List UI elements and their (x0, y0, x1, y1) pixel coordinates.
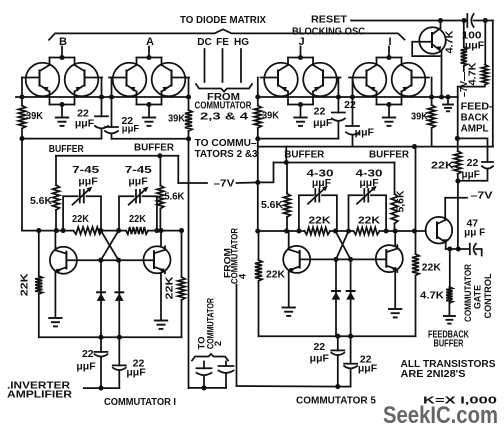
svg-text:39K: 39K (262, 110, 279, 122)
svg-text:μμF: μμF (312, 177, 332, 189)
wire C1 frame top (56, 155, 178, 157)
label 4.7K (R3) (420, 290, 444, 302)
wire to commutator 2 run (189, 387, 227, 389)
junction (36, 228, 41, 233)
label -7V rail (214, 178, 235, 190)
junction (384, 228, 389, 233)
label uuF (47) (464, 228, 485, 239)
junction (333, 257, 338, 262)
wire -7V rail right (237, 181, 258, 184)
note are 2n128s (401, 368, 466, 380)
diode CR4 symbol (346, 291, 355, 300)
wire bracket to-diode-matrix (49, 29, 405, 40)
resistor 5.6K (C5 right) (391, 163, 398, 232)
junction (98, 228, 103, 233)
label AMPL (461, 123, 490, 135)
label 2 3 and 4 (200, 110, 248, 122)
node HG (234, 37, 249, 48)
capacitor 22uuF (C5 out 2) (344, 336, 357, 386)
label BUFFER (I) (369, 149, 409, 161)
label FEED- (461, 101, 494, 113)
label 22 (A cap) (121, 115, 133, 127)
svg-text:μμF: μμF (313, 117, 333, 129)
wire feedback ampl vertical (457, 97, 459, 151)
svg-text:COMMUTATOR I: COMMUTATOR I (104, 396, 176, 408)
resistor 39K (J) (254, 97, 261, 139)
wire C1 cross b (101, 231, 119, 261)
svg-text:22K: 22K (163, 276, 175, 299)
ground buffer B (56, 118, 68, 126)
svg-text:COMMUTATOR 5: COMMUTATOR 5 (296, 395, 376, 407)
svg-text:AMPLIFIER: AMPLIFIER (7, 389, 72, 401)
wire Q7 base (395, 230, 426, 232)
svg-text:22K: 22K (422, 262, 441, 274)
wire I cap to feedback line (352, 135, 354, 146)
wire A lower bus (112, 138, 189, 140)
label uuF (A cap) (122, 124, 140, 135)
label COMMUTATOR vertical gate (463, 264, 474, 322)
resistor 39K (B) (18, 97, 25, 139)
svg-text:2,3 & 4: 2,3 & 4 (200, 110, 248, 122)
label uuF (I cap) (355, 127, 375, 139)
junction (335, 384, 340, 389)
resistor 5.6K (C1 left) (53, 156, 60, 231)
label uuF (C1 out 1) (76, 361, 96, 373)
label -7V (gate) (471, 190, 493, 202)
label BUFFER (434, 338, 464, 350)
capacitor 22uuF (A) (105, 127, 118, 133)
capacitor 22uuF (J) (332, 113, 345, 121)
label 22 (C1 out 1) (82, 348, 94, 360)
diode CR1 (100, 260, 102, 337)
label 39K (B) (26, 110, 43, 122)
junction (109, 94, 114, 99)
junction (116, 258, 121, 263)
label 5.6K (C5 left) (261, 199, 283, 211)
resistor 22K (C1 right leg) (178, 231, 185, 338)
label COMMUTATOR 1 (104, 396, 176, 408)
resistor 4.7K (R3) (446, 249, 452, 315)
label 22 (feedback cap) (467, 157, 479, 169)
junction (284, 228, 289, 233)
wire Q2 collector (160, 231, 162, 247)
label 22 (C5 out 1) (313, 341, 325, 353)
wire DC (204, 49, 206, 82)
junction (336, 94, 341, 99)
wire I right bus (431, 78, 433, 98)
transistor Q6 blocking osc (419, 21, 445, 54)
capacitor 22uuF (I) (346, 126, 359, 135)
variable capacitor 7-45 (2) (129, 187, 149, 205)
ground buffer I (383, 118, 395, 126)
svg-text:I: I (388, 36, 391, 48)
wire B cap to lower bus (101, 129, 103, 139)
wire J cap to lower bus (337, 122, 339, 139)
label 22K (C1 cross 1) (72, 214, 90, 225)
wire top rail (463, 20, 467, 22)
wire J signal down (257, 139, 259, 231)
junction (412, 228, 417, 233)
junction (255, 180, 260, 185)
label 22K (C5 left leg) (266, 269, 285, 281)
svg-text:BUFFER: BUFFER (134, 142, 174, 154)
svg-text:4.7K: 4.7K (420, 290, 444, 302)
svg-text:DC: DC (197, 37, 211, 48)
ground buffer A (143, 118, 155, 126)
wire Q7 collector (444, 198, 446, 218)
wire J left bus (257, 78, 259, 98)
node I (388, 36, 391, 48)
label RESET (311, 14, 348, 26)
svg-text:22K: 22K (129, 214, 147, 225)
wire B right bus (101, 78, 103, 117)
wire C5 box3 (299, 195, 337, 231)
wire Q3 collector (288, 231, 290, 246)
wire FE (222, 49, 224, 82)
svg-text:BUFFER: BUFFER (369, 149, 409, 161)
junction (393, 228, 398, 233)
diode CR2 (118, 260, 120, 337)
svg-text:μμF: μμF (462, 170, 480, 181)
junction (483, 18, 488, 23)
resistor 22K (C5 right leg) (412, 147, 419, 337)
label 5.6K (C1 right) (164, 191, 184, 203)
svg-text:22: 22 (313, 341, 325, 353)
label 2 vertical (213, 341, 224, 346)
wire C1 cross a (101, 231, 119, 261)
label FROM (207, 91, 240, 103)
label BUFFER (J) (284, 149, 324, 161)
label BUFFER (B) (49, 143, 84, 155)
svg-text:μμF: μμF (122, 124, 140, 135)
svg-text:4: 4 (238, 273, 249, 279)
wire Q1 emitter (54, 274, 56, 317)
svg-text:7-45: 7-45 (125, 164, 152, 176)
svg-text:μμF: μμF (76, 361, 96, 373)
svg-text:22K: 22K (72, 214, 90, 225)
svg-text:39K: 39K (168, 113, 185, 125)
junction (154, 228, 159, 233)
buffer pair A (109, 47, 189, 118)
wire B left bus (21, 78, 23, 98)
junction (461, 18, 466, 23)
wire Q6 emitter down (441, 52, 443, 98)
label uuF (100) (465, 40, 485, 52)
resistor 39K (I) (428, 97, 435, 147)
label BLOCKING OSC (292, 26, 365, 38)
resistor 5.6K (C5 left) (284, 163, 291, 232)
label 4-30 (3) (307, 168, 334, 180)
svg-text:TATORS 2 &3: TATORS 2 &3 (195, 148, 258, 160)
junction (158, 228, 163, 233)
junction (455, 136, 460, 141)
wire B lower bus (22, 138, 102, 140)
svg-text:22: 22 (344, 99, 356, 111)
label GATE vertical (473, 285, 484, 309)
capacitor (to comm 2 a) (197, 362, 212, 388)
label 7-45 (1) (72, 164, 99, 176)
wire -7V stub (445, 197, 467, 199)
ground R3 (444, 316, 455, 324)
wire Q1 collector (54, 231, 56, 247)
wire A right bus (188, 78, 190, 98)
wire J lower bus (258, 138, 339, 140)
capacitor 22uuF (B) (95, 116, 108, 128)
svg-text:μμF: μμF (465, 40, 485, 52)
wire cap bottom (458, 169, 488, 181)
wire right edge down (492, 21, 494, 147)
label uuF (J cap) (313, 117, 333, 129)
wire C1 base line (67, 259, 153, 261)
diode CR2 symbol (115, 292, 124, 301)
wire Q4 emitter (394, 272, 396, 308)
junction (99, 94, 104, 99)
label FROM vertical (223, 248, 234, 278)
junction (54, 228, 59, 233)
brace from-commutator (196, 84, 252, 92)
junction (333, 228, 338, 233)
junction (348, 257, 353, 262)
junction (19, 136, 24, 141)
wire cap feed line (457, 138, 487, 161)
svg-text:SeekIC.com: SeekIC.com (383, 402, 498, 429)
ground Q3 (283, 308, 295, 316)
capacitor 22uuF (C1 out 2) (113, 337, 126, 388)
junction (335, 334, 340, 339)
label 4 vertical (238, 273, 249, 279)
label COMMUTATOR4 vertical (230, 228, 241, 284)
ground Q1 (49, 318, 61, 326)
label TO COMMU- (195, 137, 257, 149)
svg-text:5,6K: 5,6K (396, 190, 407, 213)
wire C5 base line (300, 258, 385, 260)
capacitor 100uuF (467, 14, 473, 27)
wire C1 box2 (119, 196, 157, 230)
label 47 (466, 218, 478, 230)
junction (455, 178, 460, 183)
label uuF (B cap) (75, 118, 95, 130)
wire C1 bus (22, 230, 182, 232)
junction (61, 228, 66, 233)
watermark SeekIC.com (383, 402, 498, 429)
resistor 22K (feedback) (454, 151, 461, 181)
junction (348, 334, 353, 339)
svg-text:39K: 39K (26, 110, 43, 122)
junction (429, 94, 434, 99)
wire bias bus right section (258, 96, 458, 98)
label 22K (C5 cross 1) (309, 215, 331, 227)
label 22K (C5 cross 2) (358, 215, 380, 227)
svg-text:RESET: RESET (311, 14, 348, 26)
resistor 22K (C5 cross 1) (305, 227, 331, 234)
svg-text:2: 2 (213, 341, 224, 346)
junction (438, 18, 443, 23)
svg-text:BUFFER: BUFFER (434, 338, 464, 350)
label 22 (C1 out 2) (133, 358, 145, 370)
wire B bus down to commutator (21, 139, 23, 231)
buffer pair I (349, 47, 429, 118)
svg-text:39K: 39K (411, 111, 428, 123)
label FEEDBACK (428, 329, 469, 341)
svg-text:CONTROL: CONTROL (483, 273, 494, 318)
svg-text:7-45: 7-45 (72, 164, 99, 176)
transistor Q1 (C1 left) (50, 247, 77, 274)
wire A signal down (188, 139, 190, 388)
diode CR4 (350, 259, 352, 336)
junction (439, 94, 444, 99)
node A (146, 36, 154, 48)
diode CR3 (335, 259, 337, 336)
node FE (216, 37, 229, 48)
svg-text:μμF: μμF (358, 363, 378, 375)
label TATORS 2 and 3 (195, 148, 258, 160)
junction (117, 335, 122, 340)
svg-text:5.6K: 5.6K (164, 191, 184, 203)
label 5.6K (C1 left) (30, 195, 52, 207)
transistor Q3 (C5 left) (283, 246, 310, 273)
wire bias bus left section (16, 96, 189, 98)
wire C1 box1 (63, 196, 101, 230)
capacitor 22uuF (C1 out 1) (95, 337, 108, 388)
label 7-45 (2) (125, 164, 152, 176)
diode CR3 symbol (332, 291, 341, 300)
transistor Q7 feedback buffer (426, 217, 453, 249)
label 22 (I cap) (344, 99, 356, 111)
label 22 (B cap) (77, 108, 89, 120)
svg-text:HG: HG (234, 37, 249, 48)
ground blocking osc (443, 97, 453, 111)
wire feedback to emitter (457, 181, 459, 249)
svg-text:22K: 22K (19, 273, 31, 296)
label uuF (4-30 4) (359, 177, 379, 189)
node B (59, 36, 67, 48)
label INVERTER (7, 380, 70, 392)
label 22K (feedback) (431, 160, 454, 172)
wire I left bus (352, 78, 354, 127)
wire Q6 base loop (412, 42, 441, 56)
capacitor 22uuF (C5 out 1) (331, 336, 344, 386)
label 100 (462, 30, 482, 42)
wire Q4 collector (394, 231, 396, 245)
transistor Q2 (C1 right) (144, 246, 171, 273)
svg-text:5.6K: 5.6K (261, 199, 283, 211)
svg-text:μμF: μμF (78, 176, 98, 188)
wire Q3 emitter (288, 273, 290, 307)
svg-text:μμF: μμF (126, 367, 146, 379)
label 5.6K (C5 right) (396, 190, 407, 213)
label COMMUTATOR vertical (205, 298, 216, 349)
svg-text:J: J (298, 36, 304, 48)
node DC (197, 37, 211, 48)
label 4.7K (R2) (467, 62, 479, 85)
label 22K (C5 right leg) (422, 262, 441, 274)
label BUFFER (A) (134, 142, 174, 154)
buffer pair B (22, 47, 102, 118)
junction (456, 246, 461, 251)
junction (255, 136, 260, 141)
wire C1 bottom bus (39, 336, 182, 338)
label 39K (I) (411, 111, 428, 123)
junction (296, 228, 301, 233)
junction (255, 228, 260, 233)
resistor 22K (C5 cross 2) (354, 227, 380, 234)
label uuF (feedback cap) (462, 170, 480, 181)
junction (201, 385, 206, 390)
junction (19, 94, 24, 99)
svg-text:22K: 22K (431, 160, 454, 172)
svg-text:BUFFER: BUFFER (49, 143, 84, 155)
label CONTROL vertical (483, 273, 494, 318)
svg-text:TO DIODE MATRIX: TO DIODE MATRIX (180, 14, 266, 26)
svg-text:μμF: μμF (128, 176, 148, 188)
wire from commutator 4 (237, 285, 351, 387)
junction (255, 94, 260, 99)
wire C5 frame top (274, 162, 395, 164)
svg-text:–7V: –7V (471, 190, 493, 202)
wire C5 bus (258, 230, 395, 232)
wire -7V rail (178, 156, 207, 183)
buffer pair J (261, 47, 341, 118)
label COMMUTATOR 5 (296, 395, 376, 407)
wire Q2 emitter (160, 273, 162, 319)
junction (350, 94, 355, 99)
wire C5 bottom bus (259, 335, 416, 337)
svg-text:22: 22 (467, 157, 479, 169)
svg-text:22: 22 (82, 348, 94, 360)
svg-text:4.7K: 4.7K (467, 62, 479, 85)
capacitor (to comm 2 b) (219, 362, 234, 388)
wire top rail right (474, 20, 493, 22)
svg-text:–7V: –7V (214, 178, 235, 190)
svg-text:A: A (146, 36, 154, 48)
junction (186, 136, 191, 141)
wire 5.6K3 feed (285, 147, 287, 163)
wire C5 cross b (336, 231, 349, 259)
junction (98, 386, 103, 391)
label uuF (C5 out 2) (358, 363, 378, 375)
resistor 22K (C1 cross 2) (126, 227, 148, 234)
ground Q2 (155, 321, 167, 329)
label COMMUTATOR (195, 99, 252, 111)
label BACK (461, 112, 489, 124)
note all transistors (401, 358, 496, 370)
variable capacitor 7-45 (1) (73, 187, 93, 205)
junction (346, 228, 351, 233)
resistor 39K (A) (185, 97, 192, 139)
svg-text:AMPL: AMPL (461, 123, 490, 135)
label 39K (J) (262, 110, 279, 122)
wire jog to commutator5 frame (258, 163, 274, 183)
svg-text:B: B (59, 36, 67, 48)
svg-text:22: 22 (314, 106, 326, 118)
svg-text:22K: 22K (309, 215, 331, 227)
label 4.7K (R1) (444, 30, 456, 53)
wire HG (240, 49, 242, 82)
svg-text:ARE 2NI28'S: ARE 2NI28'S (401, 368, 466, 380)
label uuF (7-45 2) (128, 176, 148, 188)
junction (98, 258, 103, 263)
wire A left bus (111, 78, 113, 128)
junction (447, 246, 452, 251)
resistor 4.7K (R2) (458, 21, 488, 98)
resistor 5.6K (C1 right) (157, 156, 164, 231)
label uuF (4-30 3) (312, 177, 332, 189)
node J (298, 36, 304, 48)
transistor Q4 (C5 right) (376, 245, 403, 272)
wire inverter amplifier (84, 387, 120, 389)
label TO DIODE MATRIX (180, 14, 266, 26)
label 22 (J cap) (314, 106, 326, 118)
